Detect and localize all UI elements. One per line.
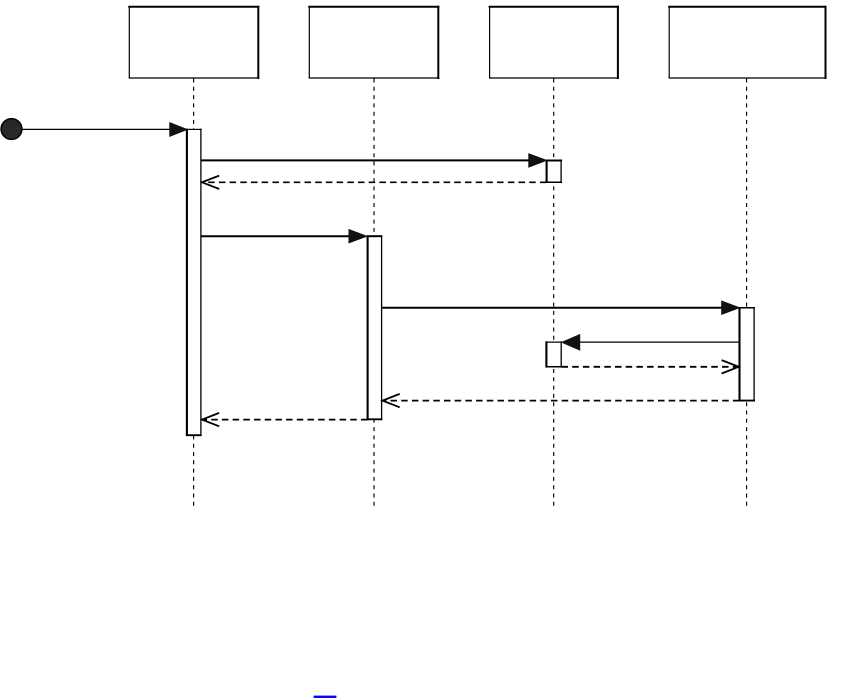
- message m5 wire (A4 to A3b, solid, leftward): [578, 341, 739, 343]
- message m7 open arrowhead (points left): [383, 394, 400, 407]
- message m4 arrowhead: [722, 301, 740, 314]
- start message wire: [22, 128, 172, 130]
- lifeline 2: [373, 79, 375, 508]
- message m6 return wire (A3b to A4, dashed, rightward): [562, 366, 739, 368]
- message m6 open arrowhead (points right): [722, 360, 739, 373]
- object box 1: [128, 6, 259, 79]
- activation bar A1 (lifeline 1): [186, 129, 202, 436]
- message m3 arrowhead: [349, 230, 367, 243]
- message m3 wire (A1 to A2, solid): [202, 235, 352, 237]
- message m1 arrowhead: [529, 154, 547, 167]
- blue marker at bottom edge: [314, 696, 337, 698]
- message m5 arrowhead (points left): [562, 335, 580, 350]
- lifeline 3: [553, 79, 555, 508]
- start message arrowhead: [170, 123, 187, 137]
- message m8 open arrowhead (points left): [202, 413, 219, 426]
- activation bar A3a (lifeline 3, upper small): [546, 160, 562, 183]
- message m4 wire (A2 to A4, solid): [382, 307, 723, 309]
- object box 3: [489, 6, 619, 79]
- message m2 return wire (A3a to A1, dashed): [203, 181, 546, 183]
- message m1 wire (A1 to A3a, solid): [202, 159, 531, 161]
- start node (filled circle): [1, 119, 22, 140]
- lifeline 1: [193, 79, 195, 508]
- message m2 open arrowhead: [202, 176, 219, 189]
- message m7 return wire (A4 to A2, dashed, leftward): [384, 400, 740, 402]
- activation bar A2 (lifeline 2): [367, 235, 383, 420]
- object box 2: [308, 6, 439, 79]
- message m8 return wire (A2 to A1, dashed, leftward): [203, 419, 368, 421]
- activation bar A4 (lifeline 4): [739, 307, 755, 401]
- lifeline 4: [746, 79, 748, 508]
- activation bar A3b (lifeline 3, lower small): [546, 341, 563, 367]
- object box 4: [668, 6, 826, 79]
